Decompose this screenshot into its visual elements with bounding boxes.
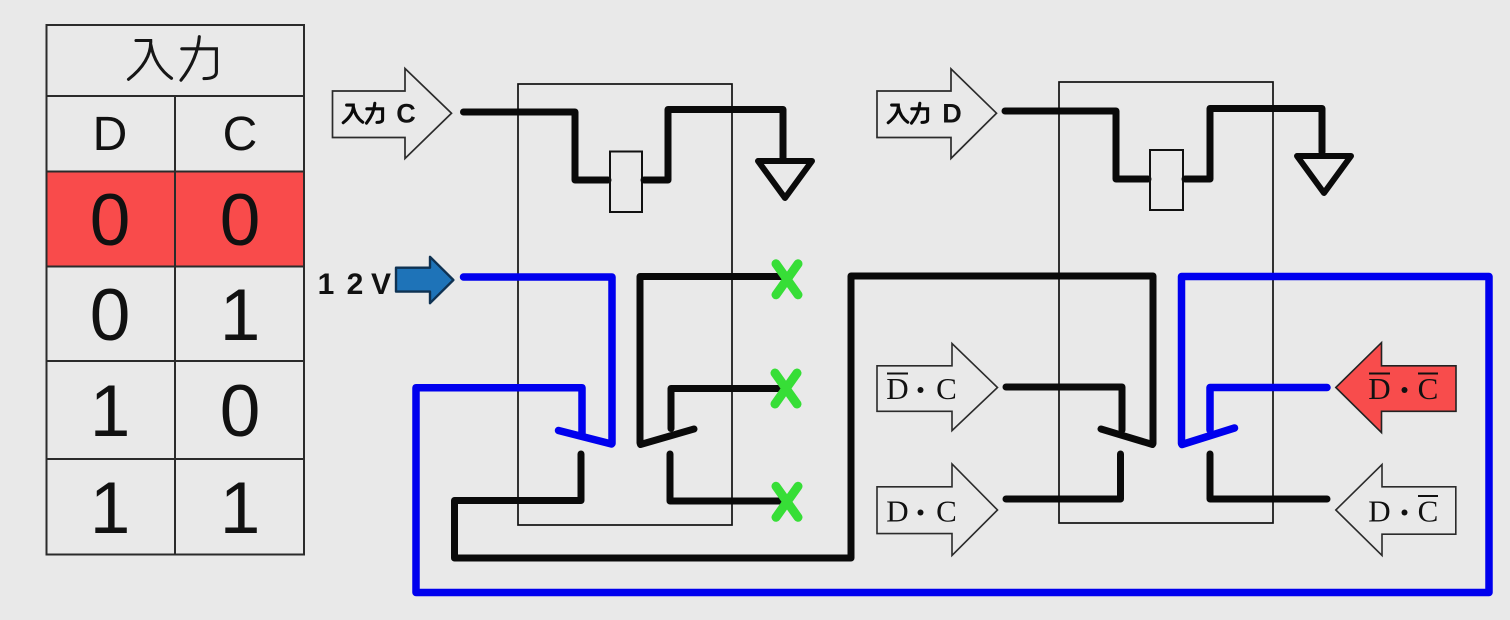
contact blade K2 left (black, closed on NC) xyxy=(1101,429,1153,445)
wire: coil K1 to ground xyxy=(644,110,783,181)
truth table grid xyxy=(47,25,305,555)
input arrow 入力C xyxy=(333,69,452,159)
wire: coil K2 to ground xyxy=(1185,109,1322,180)
label D̄·C xyxy=(886,371,957,406)
svg-text:1: 1 xyxy=(220,468,261,549)
label D̄·C̄ xyxy=(1368,371,1438,406)
wire: input D to coil K2 xyxy=(1005,111,1148,179)
input arrow 入力D xyxy=(877,69,997,158)
wire: K1 NC contact through feedback loop to K2 common (blue) xyxy=(416,277,1489,593)
cut mark X row1 (green) xyxy=(776,264,798,295)
svg-text:C: C xyxy=(1418,494,1439,529)
svg-text:D: D xyxy=(886,494,908,529)
svg-text:0: 0 xyxy=(220,371,261,452)
svg-text:2: 2 xyxy=(347,268,364,301)
table header glyph 力 (ryoku) xyxy=(181,37,216,80)
label 力 of 入力D xyxy=(912,103,928,123)
svg-text:1: 1 xyxy=(220,275,261,356)
wire: K2 right NO contact to output D·C̄ xyxy=(1210,454,1327,499)
cut mark X row3 (green) xyxy=(776,486,798,517)
12V supply arrow (blue) xyxy=(396,257,453,303)
svg-text:D: D xyxy=(886,371,908,406)
svg-text:1: 1 xyxy=(318,268,335,301)
svg-text:C: C xyxy=(223,108,258,161)
svg-text:C: C xyxy=(936,494,957,529)
ground symbol (left relay) xyxy=(758,161,812,198)
contact blade K1 left (blue, closed on NC) xyxy=(559,431,612,445)
wire: input C to coil K1 xyxy=(464,112,609,180)
truth table red highlighted row (D=0,C=0) xyxy=(48,172,304,267)
wire: 12V supply to K1 common (blue) xyxy=(464,277,613,444)
arrow D·C̄ output xyxy=(1336,465,1456,556)
relay K2 enclosure box xyxy=(1059,82,1273,523)
svg-text:D: D xyxy=(1368,371,1390,406)
svg-text:0: 0 xyxy=(90,275,131,356)
wire: K2 NC contact to output D̄·C̄ (blue) xyxy=(1210,388,1327,431)
label 力 of 入力C xyxy=(367,103,383,123)
coil K2 xyxy=(1150,150,1183,210)
label D·C xyxy=(886,494,957,529)
svg-text:0: 0 xyxy=(90,180,131,261)
svg-text:C: C xyxy=(936,371,957,406)
wire: K1 right NC contact to cut row 2 xyxy=(671,389,783,429)
arrow D̄·C (input to K2) xyxy=(877,344,998,431)
wire: D̄·C input to K2 left NC contact xyxy=(1006,387,1122,430)
coil K1 xyxy=(610,152,642,213)
contact blade K2 right (blue, closed on NC) xyxy=(1182,428,1235,445)
svg-text:1: 1 xyxy=(90,371,131,452)
wire: K1 left NO contact feedback loop to K2 left common (black) xyxy=(455,276,1154,558)
svg-text:D: D xyxy=(93,108,128,161)
svg-text:0: 0 xyxy=(220,180,261,261)
wire: D·C input to K2 left NO contact xyxy=(1006,454,1121,499)
label 入 of 入力C xyxy=(343,105,363,123)
cut mark X row2 (green) xyxy=(775,373,797,404)
svg-text:C: C xyxy=(396,99,416,129)
contact blade K1 right (black) xyxy=(641,429,695,445)
svg-text:D: D xyxy=(942,99,962,129)
wire: K1 right NO contact to cut row 3 xyxy=(670,454,783,501)
relay K1 enclosure box xyxy=(518,84,732,525)
12V label xyxy=(318,268,391,301)
label D·C̄ xyxy=(1368,494,1438,529)
label 入 of 入力D xyxy=(888,105,908,123)
ground symbol (right relay) xyxy=(1297,156,1351,193)
svg-text:1: 1 xyxy=(90,468,131,549)
svg-text:C: C xyxy=(1418,371,1439,406)
svg-text:V: V xyxy=(371,268,391,301)
wire: K1 right common from cut row xyxy=(640,277,783,444)
svg-text:D: D xyxy=(1368,494,1390,529)
table header glyph 入 (nyuu) xyxy=(129,41,172,80)
arrow D̄·C̄ output (red, active) xyxy=(1336,343,1456,433)
arrow D·C (input to K2) xyxy=(877,464,998,556)
